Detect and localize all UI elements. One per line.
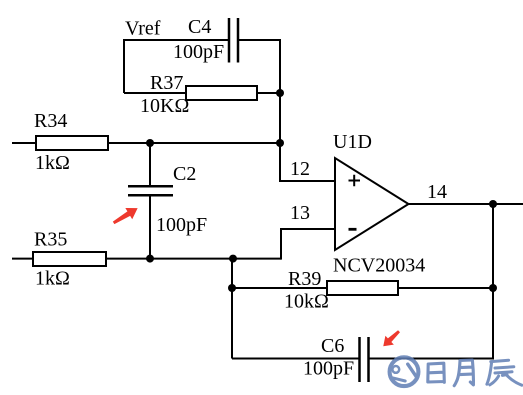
svg-text:100pF: 100pF (173, 41, 224, 63)
resistor R37 (186, 86, 257, 100)
wire R35 to step (106, 258, 281, 260)
svg-text:1kΩ: 1kΩ (35, 152, 70, 174)
wire node A vertical (279, 39, 281, 181)
wire step up to pin 13 (280, 229, 282, 260)
watermark logo circle (390, 357, 419, 386)
svg-text:C2: C2 (173, 163, 196, 185)
resistor R39 (327, 281, 398, 295)
svg-text:14: 14 (427, 181, 447, 203)
capacitor C2 (128, 186, 173, 195)
wire output (409, 203, 523, 205)
svg-text:100pF: 100pF (303, 358, 354, 380)
junction output at R39 (489, 284, 497, 292)
wire node A to pin 12 (279, 180, 335, 182)
op-amp U1D (335, 158, 409, 250)
wire R39 right (398, 287, 493, 289)
svg-text:R37: R37 (150, 72, 183, 94)
red arrow at C6 (379, 327, 403, 351)
svg-text:C4: C4 (188, 16, 211, 38)
wire C2 bottom (149, 195, 151, 258)
wire C4 right plate to node A corner (238, 39, 280, 41)
junction R35 wire at C2 (146, 255, 154, 263)
wire R35 left lead (12, 258, 33, 260)
capacitor C6 (360, 337, 369, 382)
svg-text:U1D: U1D (333, 131, 372, 153)
watermark character yue (454, 360, 473, 386)
junction output node (489, 200, 497, 208)
junction R35 wire at feedback branch (229, 255, 237, 263)
svg-text:100pF: 100pF (156, 214, 207, 236)
svg-text:13: 13 (290, 202, 310, 224)
capacitor C4 (229, 18, 238, 63)
svg-text:R35: R35 (34, 229, 67, 251)
svg-text:R34: R34 (34, 110, 67, 132)
junction R34 wire at C2 (146, 139, 154, 147)
wire into pin 13 (280, 228, 335, 230)
red arrow at C2 (110, 203, 141, 229)
wire R37 right to node A (257, 92, 280, 94)
svg-text:Vref: Vref (125, 18, 161, 40)
watermark character chen (487, 360, 522, 385)
wire Vref left vertical (123, 39, 125, 93)
svg-text:10kΩ: 10kΩ (284, 291, 329, 313)
wire feedback vertical left (231, 259, 233, 359)
svg-text:12: 12 (290, 158, 310, 180)
svg-text:C6: C6 (321, 335, 344, 357)
wire output vertical (492, 204, 494, 359)
wire C6 to output vertical (369, 358, 495, 360)
junction node A at R37 (276, 89, 284, 97)
wire C2 top (149, 143, 151, 186)
wire R34 to node A (108, 142, 280, 144)
junction feedback at R39 (228, 284, 236, 292)
svg-text:R39: R39 (288, 268, 321, 290)
resistor R34 (36, 136, 108, 150)
wire bottom left to C6 (232, 358, 360, 360)
op-amp plus input mark (349, 175, 361, 187)
svg-text:NCV20034: NCV20034 (333, 255, 425, 277)
wire R34 left lead (12, 142, 36, 144)
wire R39 left (232, 287, 327, 289)
watermark character ri (428, 363, 445, 382)
wire Vref to R37 left (124, 92, 186, 94)
resistor R35 (33, 252, 106, 266)
op-amp minus input mark (349, 228, 357, 231)
wire Vref top to C4 left plate (124, 39, 228, 41)
svg-text:1kΩ: 1kΩ (35, 268, 70, 290)
svg-text:10KΩ: 10KΩ (140, 95, 189, 117)
junction node A at R34 wire (276, 139, 284, 147)
